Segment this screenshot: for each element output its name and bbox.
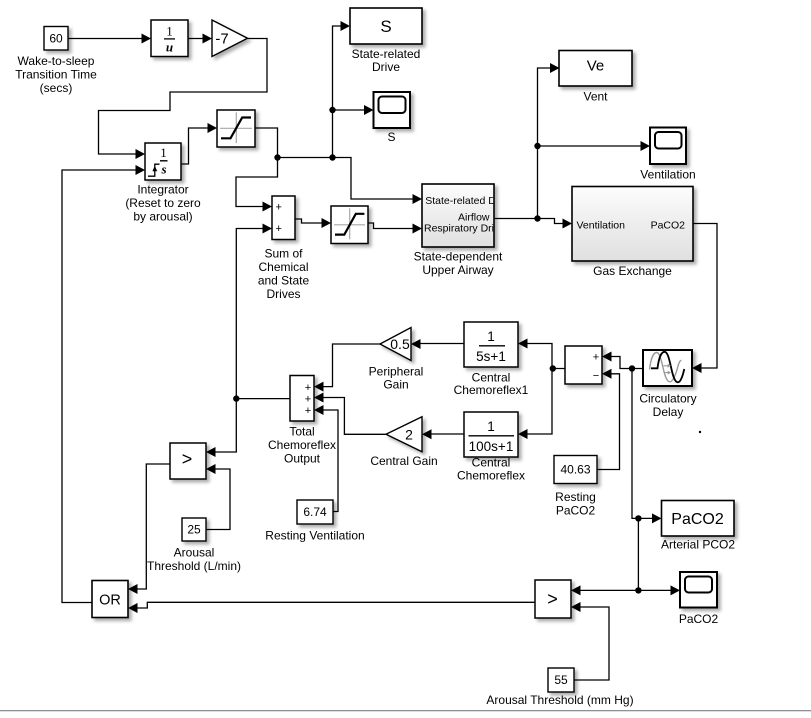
comparator2 relational operator bbox=[535, 580, 571, 618]
svg-text:1: 1 bbox=[166, 24, 173, 39]
transfer fcn Central Chemoreflex bbox=[457, 412, 525, 483]
arrow into PaCO2 scope bbox=[671, 585, 681, 595]
svg-text:Drives: Drives bbox=[266, 287, 300, 301]
saturation 2 bbox=[331, 206, 368, 244]
wire branch to scope S bbox=[333, 109, 372, 111]
svg-text:(secs): (secs) bbox=[40, 81, 73, 95]
svg-text:100s+1: 100s+1 bbox=[469, 439, 514, 454]
svg-text:Ve: Ve bbox=[587, 58, 605, 75]
svg-text:Vent: Vent bbox=[583, 90, 608, 104]
wire Saturation2 to Respiratory Drive input bbox=[368, 223, 420, 229]
svg-text:Integrator: Integrator bbox=[137, 183, 188, 197]
wire OR output to Integrator reset rail bbox=[62, 170, 143, 603]
arrow into tf1 bbox=[518, 339, 528, 349]
wire node up to S block and S scope bbox=[333, 26, 349, 158]
node state rail bbox=[329, 154, 335, 160]
svg-text:1: 1 bbox=[487, 419, 495, 434]
svg-text:Ventilation: Ventilation bbox=[640, 168, 695, 182]
node ventilation scope branch bbox=[534, 143, 540, 149]
arrow into integrator input1 bbox=[136, 149, 146, 159]
node arterial tag branch bbox=[635, 515, 641, 521]
svg-text:60: 60 bbox=[49, 32, 63, 46]
arrow into total sum input3 bbox=[314, 405, 324, 415]
node total chemoreflex branch bbox=[233, 395, 239, 401]
arrow into S block bbox=[341, 21, 351, 31]
svg-text:25: 25 bbox=[187, 523, 201, 537]
wire 60 to 1/u bbox=[68, 38, 149, 40]
svg-text:Wake-to-sleep: Wake-to-sleep bbox=[18, 54, 95, 68]
arrow into sum1 input2 bbox=[263, 224, 273, 234]
node chemoreflex rail branch bbox=[550, 365, 556, 371]
scope PaCO2 bbox=[679, 572, 719, 626]
svg-text:Respiratory Driv: Respiratory Driv bbox=[424, 223, 500, 235]
svg-text:OR: OR bbox=[99, 592, 121, 608]
svg-text:Central: Central bbox=[472, 456, 511, 470]
arrow into Ve bbox=[550, 63, 560, 73]
node delay output branch bbox=[629, 365, 635, 371]
wire Total Chemoreflex Output to rail x236 bbox=[236, 398, 290, 400]
wire rail x632 down to PaCO2 junctions bbox=[632, 369, 638, 591]
gain -7 bbox=[212, 20, 248, 57]
math function 1/u bbox=[151, 20, 188, 57]
svg-text:PaCO2: PaCO2 bbox=[679, 612, 719, 626]
wire Gas Exchange PaCO2 output down to Circulatory Delay bbox=[693, 224, 717, 369]
arrow into comparator2 input2 bbox=[571, 602, 581, 612]
wire 6.74 to Total Chemoreflex input3 bbox=[316, 410, 338, 512]
svg-text:S: S bbox=[380, 17, 391, 36]
circulatory delay block bbox=[639, 350, 696, 419]
wire Sum of Drives to Saturation2 bbox=[295, 219, 329, 223]
svg-text:2: 2 bbox=[405, 426, 413, 442]
svg-text:+: + bbox=[305, 382, 311, 394]
subsystem State-dependent Upper Airway bbox=[414, 184, 508, 277]
svg-text:Chemoreflex: Chemoreflex bbox=[457, 469, 525, 483]
svg-text:Peripheral: Peripheral bbox=[369, 365, 424, 379]
wire rail down to Central Chemoreflex input bbox=[520, 369, 552, 435]
wire Upper Airway Airflow output to rail x537 bbox=[494, 218, 538, 220]
svg-text:-7: -7 bbox=[215, 31, 228, 48]
svg-text:Total: Total bbox=[289, 425, 314, 439]
OR logical operator block bbox=[92, 581, 128, 618]
svg-text:Arousal Threshold (mm Hg): Arousal Threshold (mm Hg) bbox=[486, 693, 633, 707]
arrow into ventilation scope bbox=[641, 141, 651, 151]
svg-text:Chemoreflex1: Chemoreflex1 bbox=[454, 383, 529, 397]
svg-text:Gas Exchange: Gas Exchange bbox=[593, 264, 672, 278]
wire branch to Arterial PCO2 tag bbox=[638, 517, 659, 519]
arrow into OR input1 bbox=[128, 584, 138, 594]
svg-text:Chemoreflex: Chemoreflex bbox=[268, 438, 336, 452]
svg-text:55: 55 bbox=[554, 673, 568, 687]
sum block Sum of Chemical and State Drives bbox=[258, 196, 310, 301]
arrow into OR input2 bbox=[128, 603, 138, 613]
svg-text:Resting Ventilation: Resting Ventilation bbox=[265, 529, 364, 543]
svg-text:40.63: 40.63 bbox=[560, 463, 590, 477]
wire 40.63 to sum2 minus input bbox=[597, 374, 620, 470]
gain Peripheral Gain 0.5 bbox=[369, 328, 424, 392]
gain Central Gain 2 bbox=[370, 417, 437, 468]
svg-text:Threshold (L/min): Threshold (L/min) bbox=[147, 559, 241, 573]
svg-text:Output: Output bbox=[284, 452, 321, 466]
arrow into sum2 minus bbox=[602, 369, 612, 379]
svg-text:(Reset to zero: (Reset to zero bbox=[125, 196, 201, 210]
svg-text:Upper Airway: Upper Airway bbox=[422, 263, 493, 277]
svg-text:>: > bbox=[547, 589, 558, 609]
PaCO2 tag block Arterial PCO2 bbox=[661, 501, 735, 552]
constant 6.74 Resting Ventilation bbox=[265, 500, 364, 543]
svg-text:+: + bbox=[305, 405, 311, 417]
constant 55 bbox=[486, 668, 633, 707]
svg-text:State-related: State-related bbox=[352, 47, 421, 61]
arrow into upper airway input1 bbox=[413, 194, 423, 204]
scope Ventilation bbox=[640, 128, 695, 182]
wire branch to comparator2 input1 bbox=[573, 589, 638, 591]
Ve tag block bbox=[559, 51, 632, 104]
svg-text:0.5: 0.5 bbox=[390, 336, 410, 352]
node sat1 branch bbox=[274, 154, 280, 160]
arrow into saturation2 bbox=[322, 218, 332, 228]
wire Peripheral Gain to Total Chemoreflex input1 bbox=[316, 344, 380, 387]
svg-text:PaCO2: PaCO2 bbox=[651, 219, 686, 231]
wire rail x236 from Sum input2 down to comparator1 input1 bbox=[208, 229, 270, 453]
arrow into gas exchange bbox=[563, 219, 573, 229]
svg-text:and State: and State bbox=[258, 274, 310, 288]
wire comparator2 output to OR input2 bbox=[130, 602, 535, 608]
wire node to Sum of Drives input 1 bbox=[236, 158, 278, 207]
arrow into total sum input1 bbox=[314, 382, 324, 392]
svg-text:+: + bbox=[305, 394, 311, 406]
svg-text:s: s bbox=[160, 162, 166, 177]
node gas exchange branch bbox=[534, 215, 540, 221]
subsystem Gas Exchange bbox=[572, 187, 693, 279]
wire tf2 output to Central Gain bbox=[424, 433, 464, 435]
node scope S branch bbox=[329, 107, 335, 113]
S tag block State-related Drive bbox=[350, 8, 422, 74]
svg-text:S: S bbox=[387, 130, 395, 144]
wire tf1 output to Peripheral Gain bbox=[413, 343, 464, 345]
arrow into upper airway input2 bbox=[413, 224, 423, 234]
svg-text:+: + bbox=[593, 352, 599, 364]
arrow into sum2 plus bbox=[602, 352, 612, 362]
arrow into saturation1 bbox=[208, 123, 218, 133]
saturation 1 bbox=[217, 110, 255, 147]
wire Circulatory Delay output to sum2 plus input bbox=[604, 357, 643, 369]
svg-text:Delay: Delay bbox=[653, 405, 684, 419]
scope S bbox=[374, 92, 411, 144]
window bottom border bbox=[0, 710, 811, 711]
svg-text:State-dependent: State-dependent bbox=[414, 250, 503, 264]
svg-text:1: 1 bbox=[160, 145, 167, 160]
arrow into integrator reset bbox=[136, 165, 146, 175]
svg-text:Circulatory: Circulatory bbox=[639, 392, 696, 406]
svg-text:Chemical: Chemical bbox=[258, 260, 308, 274]
arrow into peripheral gain bbox=[411, 339, 421, 349]
svg-text:PaCO2: PaCO2 bbox=[671, 511, 724, 528]
constant 60 Wake-to-sleep Transition Time bbox=[15, 27, 97, 96]
arrow into tf2 bbox=[518, 429, 528, 439]
comparator1 relational operator bbox=[170, 443, 206, 479]
arrow into arterial PCO2 tag bbox=[652, 513, 662, 523]
wire comparator1 output to OR input1 bbox=[130, 464, 170, 589]
wire Integrator to Saturation1 bbox=[181, 128, 215, 164]
arrow into 1/u bbox=[142, 34, 152, 44]
node paco2 scope branch bbox=[635, 587, 641, 593]
svg-text:Central Gain: Central Gain bbox=[370, 454, 437, 468]
wire branch to Ventilation scope bbox=[538, 145, 649, 147]
svg-text:Sum of: Sum of bbox=[264, 247, 303, 261]
svg-text:Ventilation: Ventilation bbox=[577, 219, 626, 231]
wire Saturation1 to node and State-related input bbox=[255, 128, 420, 199]
svg-text:Drive: Drive bbox=[372, 60, 400, 74]
svg-text:Arousal: Arousal bbox=[174, 546, 215, 560]
wire branch to PaCO2 scope bbox=[638, 589, 678, 591]
arrow into sum1 input1 bbox=[263, 202, 273, 212]
svg-text:>: > bbox=[182, 449, 193, 469]
svg-text:−: − bbox=[593, 370, 599, 382]
arrow into total sum input2 bbox=[314, 393, 324, 403]
wire 25 to comparator1 input2 bbox=[206, 469, 230, 530]
svg-text:Gain: Gain bbox=[383, 378, 408, 392]
transfer fcn Central Chemoreflex1 bbox=[454, 322, 529, 397]
svg-text:6.74: 6.74 bbox=[303, 505, 327, 519]
constant 25 bbox=[147, 518, 241, 573]
arrow into comparator1 input2 bbox=[206, 464, 216, 474]
stray annotation dot bbox=[699, 431, 701, 433]
svg-text:Resting: Resting bbox=[555, 490, 596, 504]
arrow into comparator1 input1 bbox=[206, 447, 216, 457]
svg-text:5s+1: 5s+1 bbox=[476, 349, 506, 364]
wire gain -7 to Integrator input 1 bbox=[99, 39, 268, 155]
wire sum2 output to chemoreflex rail bbox=[520, 344, 565, 369]
wire 55 to comparator2 input2 bbox=[573, 607, 609, 680]
arrow into comparator2 input1 bbox=[571, 585, 581, 595]
svg-text:by arousal): by arousal) bbox=[133, 210, 192, 224]
svg-text:Arterial PCO2: Arterial PCO2 bbox=[661, 538, 735, 552]
svg-text:Transition Time: Transition Time bbox=[15, 68, 97, 82]
arrow into scope S bbox=[364, 105, 374, 115]
sum Total Chemoreflex Output bbox=[268, 376, 336, 466]
svg-text:+: + bbox=[275, 223, 281, 235]
integrator (reset) bbox=[125, 143, 201, 224]
wire branch to Gas Exchange input bbox=[538, 219, 571, 224]
wire rail x537 up to Ve bbox=[538, 68, 559, 219]
svg-text:PaCO2: PaCO2 bbox=[556, 504, 596, 518]
svg-text:1: 1 bbox=[487, 329, 495, 344]
wire Central Gain to Total Chemoreflex input2 bbox=[316, 398, 386, 435]
constant 40.63 Resting PaCO2 bbox=[554, 456, 597, 518]
arrow into central gain bbox=[422, 429, 432, 439]
sum2 square sum block bbox=[565, 346, 602, 384]
wire 1/u to gain -7 bbox=[188, 38, 210, 40]
svg-text:State-related Driv: State-related Driv bbox=[425, 195, 507, 207]
arrow into circulatory delay bbox=[692, 363, 702, 373]
svg-text:u: u bbox=[166, 40, 173, 55]
svg-text:+: + bbox=[275, 202, 281, 214]
arrow into gain -7 bbox=[203, 34, 213, 44]
